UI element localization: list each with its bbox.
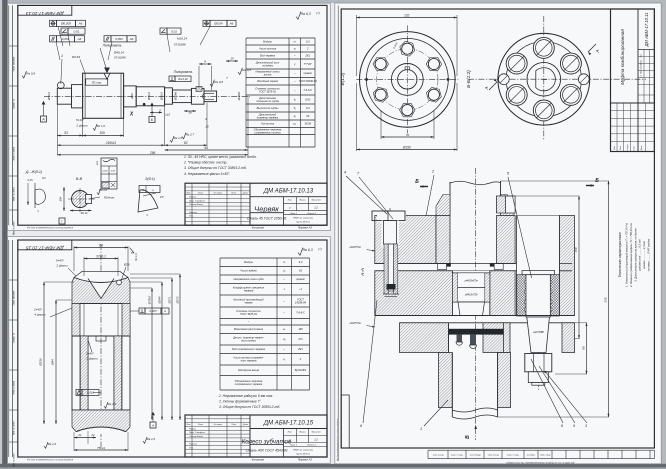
svg-text:8: 8 — [561, 424, 563, 428]
svg-text:22: 22 — [90, 433, 95, 437]
svg-text:А6: А6 — [78, 22, 83, 26]
svg-text:толщина по хорде: толщина по хорде — [256, 99, 279, 103]
svg-text:Листов 1: Листов 1 — [306, 213, 316, 215]
svg-text:3. Общие допуски по ГОСТ 30893: 3. Общие допуски по ГОСТ 30893.2-mK. — [219, 405, 281, 409]
svg-text:Пров.: Пров. — [189, 432, 195, 434]
svg-text:подъёма: подъёма — [262, 63, 273, 67]
svg-text:109: 109 — [99, 131, 105, 135]
svg-text:2. Момент срабатывания муфты Т: 2. Момент срабатывания муфты Тс = 786,45… — [629, 223, 633, 288]
svg-text:Высота до хорды: Высота до хорды — [257, 106, 279, 110]
svg-text:0,01: 0,01 — [171, 29, 177, 33]
svg-text:Подп. и дата: Подп. и дата — [13, 380, 16, 395]
svg-text:ного колеса: ного колеса — [241, 340, 256, 343]
svg-text:39,58: 39,58 — [305, 122, 312, 126]
svg-text:Инв. № дубл.: Инв. № дубл. — [13, 421, 16, 435]
svg-text:132: 132 — [404, 14, 410, 18]
svg-text:Вид сопряженного червяка: Вид сопряженного червяка — [232, 347, 265, 351]
svg-text:z₂: z₂ — [282, 270, 285, 273]
svg-text:1:2: 1:2 — [641, 75, 643, 78]
svg-text:Лист: Лист — [197, 192, 203, 194]
svg-text:Подп. и дата: Подп. и дата — [507, 454, 519, 457]
svg-text:Не для коммерческого использов: Не для коммерческого использования — [27, 458, 74, 462]
svg-text:4. Неуказанные фаски 1×45°.: 4. Неуказанные фаски 1×45°. — [184, 172, 230, 176]
svg-text:БрО10Ф1: БрО10Ф1 — [295, 368, 307, 372]
svg-text:Материал венца: Материал венца — [238, 368, 259, 372]
svg-text:d₂: d₂ — [283, 337, 285, 341]
svg-text:64: 64 — [99, 244, 103, 248]
svg-text:Ø271: Ø271 — [168, 296, 172, 304]
svg-text:15: 15 — [205, 125, 209, 129]
svg-text:Ø50k6: Ø50k6 — [174, 91, 178, 101]
svg-text:1. Неуказанные радиусы 5 мм ma: 1. Неуказанные радиусы 5 мм max. — [219, 394, 273, 398]
svg-text:А6: А6 — [229, 22, 234, 26]
svg-text:Число витков: Число витков — [259, 46, 277, 50]
svg-text:Ø0,04: Ø0,04 — [213, 22, 223, 26]
svg-text:Копировал: Копировал — [252, 459, 265, 462]
svg-text:Разраб.: Разраб. — [189, 428, 197, 430]
svg-text:Ø244: Ø244 — [158, 296, 162, 304]
svg-text:Пров.: Пров. — [189, 200, 195, 202]
svg-text:Модуль: Модуль — [244, 260, 254, 264]
svg-text:1: 1 — [61, 54, 63, 58]
svg-text:ГОСТ 3675-81: ГОСТ 3675-81 — [240, 312, 258, 316]
svg-text:Инв.№ дубл.: Инв.№ дубл. — [487, 454, 499, 457]
svg-text:ГОСТ19036-94: ГОСТ19036-94 — [299, 79, 317, 83]
svg-text:Подп.: Подп. — [231, 191, 237, 194]
svg-text:Н.контр.: Н.контр. — [189, 212, 198, 214]
svg-text:Техническая характеристика: Техническая характеристика — [618, 232, 622, 277]
svg-text:9×45°: 9×45° — [56, 259, 65, 263]
svg-text:⌀94/2h759: ⌀94/2h759 — [465, 293, 478, 297]
svg-text:Э(5:1): Э(5:1) — [145, 177, 155, 181]
svg-text:Инв. № дубл.: Инв. № дубл. — [13, 187, 16, 201]
svg-text:Тимофеев: Тимофеев — [195, 199, 205, 202]
svg-text:Rz 1,6: Rz 1,6 — [135, 253, 138, 261]
svg-text:80: 80 — [582, 346, 586, 350]
svg-text:червяка: червяка — [244, 290, 254, 293]
svg-text:Не для коммерческого использов: Не для коммерческого использования — [27, 225, 74, 229]
svg-text:1. Номинальный крутящий момент: 1. Номинальный крутящий момент Тₖ = 707,… — [625, 223, 629, 287]
svg-text:Лист: Лист — [620, 145, 622, 151]
svg-text:37±0,1: 37±0,1 — [96, 255, 106, 259]
svg-text:Ø84: Ø84 — [51, 359, 55, 366]
svg-text:Ø45k6: Ø45k6 — [237, 91, 241, 101]
svg-text:ГОСТ 3675-81: ГОСТ 3675-81 — [259, 89, 277, 93]
svg-text:216h11: 216h11 — [105, 141, 117, 145]
svg-text:Межосевое расстояние: Межосевое расстояние — [234, 327, 264, 331]
svg-text:z₁: z₁ — [293, 47, 296, 50]
svg-text:Инв. № подл.: Инв. № подл. — [13, 221, 16, 236]
svg-text:Направление линии зуба: Направление линии зуба — [233, 277, 264, 281]
svg-text:В-В: В-В — [76, 177, 83, 181]
svg-text:Лит.: Лит. — [287, 432, 293, 434]
svg-text:Ø59,6: Ø59,6 — [47, 92, 51, 101]
svg-text:158: 158 — [574, 247, 578, 252]
svg-text:Изм: Изм — [187, 424, 191, 426]
svg-text:ДМ АБМ-17.10.13: ДМ АБМ-17.10.13 — [263, 189, 314, 195]
svg-text:радиальное ......... 0,3 мм: радиальное ......... 0,3 мм — [638, 239, 642, 271]
svg-text:В: В — [465, 435, 471, 439]
svg-text:РГАТУ им. Соловьёва: РГАТУ им. Соловьёва — [293, 217, 314, 220]
svg-text:В(1:2): В(1:2) — [340, 72, 346, 85]
svg-text:Ход витка: Ход витка — [260, 122, 274, 126]
svg-text:Справ.№: Справ.№ — [527, 454, 535, 457]
svg-text:Формат А3: Формат А3 — [298, 459, 312, 462]
svg-text:0,052: 0,052 — [115, 37, 123, 41]
svg-text:19036-94: 19036-94 — [295, 300, 307, 304]
svg-text:А-А: А-А — [360, 268, 366, 277]
svg-text:(√): (√) — [318, 247, 322, 251]
svg-text:Н.контр.: Н.контр. — [189, 444, 198, 446]
svg-text:aₓ: aₓ — [283, 328, 285, 331]
svg-text:36: 36 — [188, 111, 192, 115]
svg-text:Инв. № подл.: Инв. № подл. — [13, 453, 16, 468]
svg-text:Утв.: Утв. — [189, 216, 194, 218]
svg-text:Муфта комбинированная: Муфта комбинированная — [620, 29, 625, 85]
svg-text:2 фаски: 2 фаски — [75, 124, 88, 128]
svg-text:Утв.: Утв. — [189, 447, 194, 449]
svg-text:15: 15 — [230, 57, 234, 61]
svg-text:РГАТУ им. Соловьёва: РГАТУ им. Соловьёва — [293, 449, 314, 452]
svg-text:271: 271 — [297, 337, 303, 341]
svg-text:2. *Размер обеспеч. инстр.: 2. *Размер обеспеч. инстр. — [183, 161, 227, 165]
svg-text:6,3: 6,3 — [306, 39, 310, 43]
svg-text:угловое ........ 0°40' мм/мм: угловое ........ 0°40' мм/мм — [647, 239, 651, 273]
svg-text:Ra 1,6: Ra 1,6 — [174, 136, 183, 140]
svg-text:диаметр червяка: диаметр червяка — [257, 115, 279, 119]
svg-text:Дата: Дата — [242, 424, 249, 426]
svg-text:Ø59,6: Ø59,6 — [160, 92, 164, 101]
svg-text:ДМ АБМ-17.10.15: ДМ АБМ-17.10.15 — [263, 420, 314, 426]
svg-text:Масса: Масса — [300, 432, 307, 434]
svg-text:осевое ............. 2,3 мм: осевое ............. 2,3 мм — [642, 241, 646, 269]
svg-text:№ докум.: № докум. — [214, 423, 223, 426]
svg-text:9,82: 9,82 — [305, 97, 311, 101]
svg-text:Ra 0,8: Ra 0,8 — [214, 80, 223, 84]
svg-text:Полировать: Полировать — [174, 70, 193, 74]
svg-text:⌀б/2Н8Тм: ⌀б/2Н8Тм — [349, 322, 361, 325]
svg-text:238: 238 — [604, 297, 608, 303]
svg-text:1:2: 1:2 — [314, 438, 318, 442]
svg-text:Подп.: Подп. — [633, 145, 636, 150]
svg-text:53: 53 — [64, 131, 68, 135]
svg-text:Ø26: Ø26 — [123, 263, 130, 267]
svg-text:правое: правое — [304, 72, 313, 75]
svg-text:Ø0,005: Ø0,005 — [60, 22, 71, 26]
svg-text:Справ. №: Справ. № — [13, 98, 16, 109]
svg-text:Лист 1: Лист 1 — [289, 213, 297, 215]
svg-text:Сталь 45 ГОСТ 1050-81: Сталь 45 ГОСТ 1050-81 — [247, 217, 287, 221]
svg-text:75h11: 75h11 — [97, 446, 105, 450]
svg-text:Перв. прим.: Перв. прим. — [539, 454, 550, 456]
svg-text:2×45°: 2×45° — [33, 308, 43, 312]
svg-text:Ø59,6: Ø59,6 — [147, 92, 151, 101]
svg-text:А: А — [151, 423, 154, 427]
svg-text:⌀4/2НбВР: ⌀4/2НбВР — [533, 331, 544, 334]
svg-text:57,62МК: 57,62МК — [174, 43, 186, 47]
svg-text:5×10°: 5×10° — [76, 118, 85, 122]
svg-text:сопряженного колеса: сопряженного колеса — [254, 131, 281, 134]
svg-text:180: 180 — [298, 327, 303, 331]
svg-text:57,62МК: 57,62МК — [114, 56, 126, 60]
svg-text:R0,4max: R0,4max — [104, 196, 115, 200]
svg-text:Ø190: Ø190 — [402, 146, 411, 150]
svg-text:ZК1: ZК1 — [304, 53, 310, 57]
svg-text:z₁: z₁ — [282, 358, 285, 361]
svg-text:296: 296 — [149, 151, 156, 155]
svg-text:70: 70 — [406, 133, 410, 137]
svg-text:2 фаски: 2 фаски — [85, 357, 98, 361]
svg-text:0,01: 0,01 — [74, 29, 80, 33]
svg-text:Масштаб: Масштаб — [312, 200, 322, 202]
svg-text:0,010: 0,010 — [102, 171, 108, 173]
svg-text:Ø236: Ø236 — [39, 358, 43, 367]
svg-text:А: А — [484, 86, 489, 90]
svg-text:Полировать: Полировать — [103, 44, 122, 48]
svg-text:Модуль: Модуль — [263, 39, 273, 43]
svg-text:Б-Б(1:2): Б-Б(1:2) — [466, 70, 472, 88]
svg-text:Изм: Изм — [187, 192, 191, 194]
svg-text:ДМ АБМ-17.10.11 Муфта комбини: ДМ АБМ-17.10.11 Муфта комбинированная. Н… — [505, 461, 575, 464]
svg-text:Подп. и дата: Подп. и дата — [13, 146, 16, 161]
svg-text:Копировал: Копировал — [252, 227, 265, 230]
svg-text:Дата: Дата — [242, 192, 249, 194]
svg-text:7-6-6-С: 7-6-6-С — [303, 88, 312, 92]
svg-text:2×45°: 2×45° — [85, 352, 95, 356]
svg-text:–1: –1 — [298, 287, 302, 291]
svg-text:Перв. примен.: Перв. примен. — [14, 290, 16, 306]
svg-text:21: 21 — [77, 433, 82, 437]
svg-text:Ra 1,6: Ra 1,6 — [48, 442, 57, 446]
svg-text:82: 82 — [184, 141, 188, 145]
svg-text:7°7'30": 7°7'30" — [304, 62, 313, 66]
svg-text:№ докум.: № докум. — [626, 144, 629, 152]
svg-text:Сталь 40Х ГОСТ 4543-81: Сталь 40Х ГОСТ 4543-81 — [246, 449, 288, 453]
svg-text:3. Общие допуски по ГОСТ 30893: 3. Общие допуски по ГОСТ 30893.2-mK. — [184, 166, 247, 170]
svg-text:Ra 6,3: Ra 6,3 — [301, 12, 311, 16]
svg-text:2. Уклоны формовочные 7°.: 2. Уклоны формовочные 7°. — [218, 399, 262, 403]
svg-text:R0,63: R0,63 — [72, 55, 80, 59]
svg-text:Группа МГ5-21: Группа МГ5-21 — [296, 222, 310, 224]
svg-text:Перв. примен.: Перв. примен. — [14, 56, 16, 72]
svg-text:М10,14: М10,14 — [177, 37, 187, 41]
svg-text:Масштаб: Масштаб — [641, 64, 643, 73]
svg-text:Инв.№ подл.: Инв.№ подл. — [432, 454, 444, 457]
svg-text:9: 9 — [573, 424, 575, 428]
svg-text:Масса: Масса — [300, 200, 307, 202]
svg-text:2 фаски: 2 фаски — [55, 264, 68, 268]
svg-text:3. Допустимое смещение валов,: 3. Допустимое смещение валов, не более — [633, 228, 637, 282]
svg-text:Ra 6,3: Ra 6,3 — [303, 248, 313, 252]
svg-text:h̄₁: h̄₁ — [294, 106, 297, 110]
svg-text:Ø29: Ø29 — [97, 160, 99, 166]
svg-text:Число зубьев: Число зубьев — [240, 269, 257, 273]
svg-text:Фомин: Фомин — [197, 203, 204, 206]
svg-text:Ø62: Ø62 — [130, 93, 134, 100]
svg-text:0,25: 0,25 — [27, 178, 33, 182]
svg-text:ДМ АБМ-17.10.13: ДМ АБМ-17.10.13 — [26, 11, 65, 16]
svg-text:p₂: p₂ — [293, 123, 296, 126]
svg-text:Ø40,14: Ø40,14 — [113, 51, 124, 55]
svg-text:0,025: 0,025 — [150, 309, 157, 313]
svg-text:Формат А3: Формат А3 — [298, 227, 312, 230]
svg-text:3: 3 — [585, 424, 587, 428]
svg-text:Ø79h7: Ø79h7 — [148, 295, 152, 305]
svg-text:1: 1 — [420, 427, 422, 431]
svg-text:ного червяка: ного червяка — [241, 360, 257, 363]
svg-text:А6: А6 — [77, 37, 82, 41]
svg-text:Ra 0,8: Ra 0,8 — [242, 68, 251, 72]
svg-text:Ra 1,6: Ra 1,6 — [147, 437, 156, 441]
svg-text:Ra 1,6: Ra 1,6 — [108, 402, 117, 406]
svg-text:4: 4 — [344, 171, 346, 175]
svg-text:Лит.: Лит. — [287, 200, 293, 202]
svg-text:Вид червяка: Вид червяка — [260, 53, 275, 57]
svg-text:1. 30...45 HRC, кроме мест, ук: 1. 30...45 HRC, кроме мест, указанных ос… — [184, 155, 257, 159]
svg-text:правое: правое — [296, 278, 305, 281]
svg-text:Листов 1: Листов 1 — [306, 445, 316, 447]
svg-text:А: А — [595, 49, 600, 53]
svg-text:Rz 1,6: Rz 1,6 — [97, 124, 106, 128]
svg-text:Масса: Масса — [641, 60, 643, 65]
svg-text:6,3: 6,3 — [306, 106, 310, 110]
svg-text:Разраб.: Разраб. — [189, 197, 197, 199]
svg-text:А6: А6 — [129, 37, 134, 41]
svg-text:(√): (√) — [316, 11, 320, 15]
svg-text:Подп.: Подп. — [231, 423, 237, 426]
svg-text:Лист: Лист — [197, 424, 203, 426]
svg-text:Ra 0,32: Ra 0,32 — [178, 77, 188, 81]
svg-text:ДМ АБМ-17.10.15: ДМ АБМ-17.10.15 — [26, 246, 65, 251]
svg-text:сопряженного червяка: сопряженного червяка — [235, 383, 263, 386]
svg-text:червяк: червяк — [244, 301, 253, 304]
svg-text:≥10: ≥10 — [165, 113, 170, 117]
svg-text:R2 max: R2 max — [92, 81, 102, 85]
svg-text:6,3: 6,3 — [299, 260, 303, 264]
svg-text:Не для коммерческого использов: Не для коммерческого использования — [337, 418, 340, 461]
svg-text:Дата: Дата — [641, 146, 643, 152]
svg-text:Ra 2,7: Ra 2,7 — [186, 132, 195, 136]
svg-text:66: 66 — [205, 146, 209, 150]
svg-text:ZК1: ZК1 — [297, 347, 303, 351]
svg-text:39,12: 39,12 — [81, 211, 88, 215]
svg-text:7-6-6-С: 7-6-6-С — [296, 311, 305, 315]
svg-text:Группа МГ5-21: Группа МГ5-21 — [296, 454, 310, 456]
svg-text:Лист 1: Лист 1 — [289, 445, 297, 447]
svg-text:⌀б/2Н8Тм: ⌀б/2Н8Тм — [349, 246, 361, 249]
svg-text:Ø272: Ø272 — [176, 296, 180, 304]
svg-text:Фомин: Фомин — [197, 435, 204, 438]
svg-text:Б: Б — [415, 179, 419, 185]
svg-text:s̄₁: s̄₁ — [294, 98, 296, 102]
svg-text:1:2: 1:2 — [314, 206, 318, 210]
svg-text:Ø34: Ø34 — [60, 196, 63, 202]
svg-text:d₁: d₁ — [294, 114, 296, 118]
svg-text:Подп. и дата: Подп. и дата — [451, 454, 463, 457]
svg-text:Масштаб: Масштаб — [312, 432, 322, 434]
svg-text:Ra 0,8: Ra 0,8 — [26, 71, 35, 75]
svg-text:Д...Ж(5:1): Д...Ж(5:1) — [25, 170, 42, 174]
svg-text:R1: R1 — [42, 176, 46, 180]
svg-text:витка: витка — [264, 74, 272, 77]
svg-text:№ докум.: № докум. — [214, 191, 223, 194]
svg-text:Лит.: Лит. — [641, 53, 643, 59]
svg-text:Тимофеев: Тимофеев — [195, 431, 205, 434]
svg-text:X: X — [129, 112, 134, 118]
svg-text:⌀44/2h8Тм: ⌀44/2h8Тм — [464, 279, 477, 283]
svg-text:Взам.инв.№: Взам.инв.№ — [470, 454, 481, 457]
svg-text:Исходный червяк: Исходный червяк — [257, 79, 279, 83]
svg-text:ДМ АБМ-17.10.11: ДМ АБМ-17.10.11 — [644, 13, 649, 48]
svg-text:А: А — [163, 309, 166, 313]
svg-text:Справ. №: Справ. № — [13, 332, 16, 343]
